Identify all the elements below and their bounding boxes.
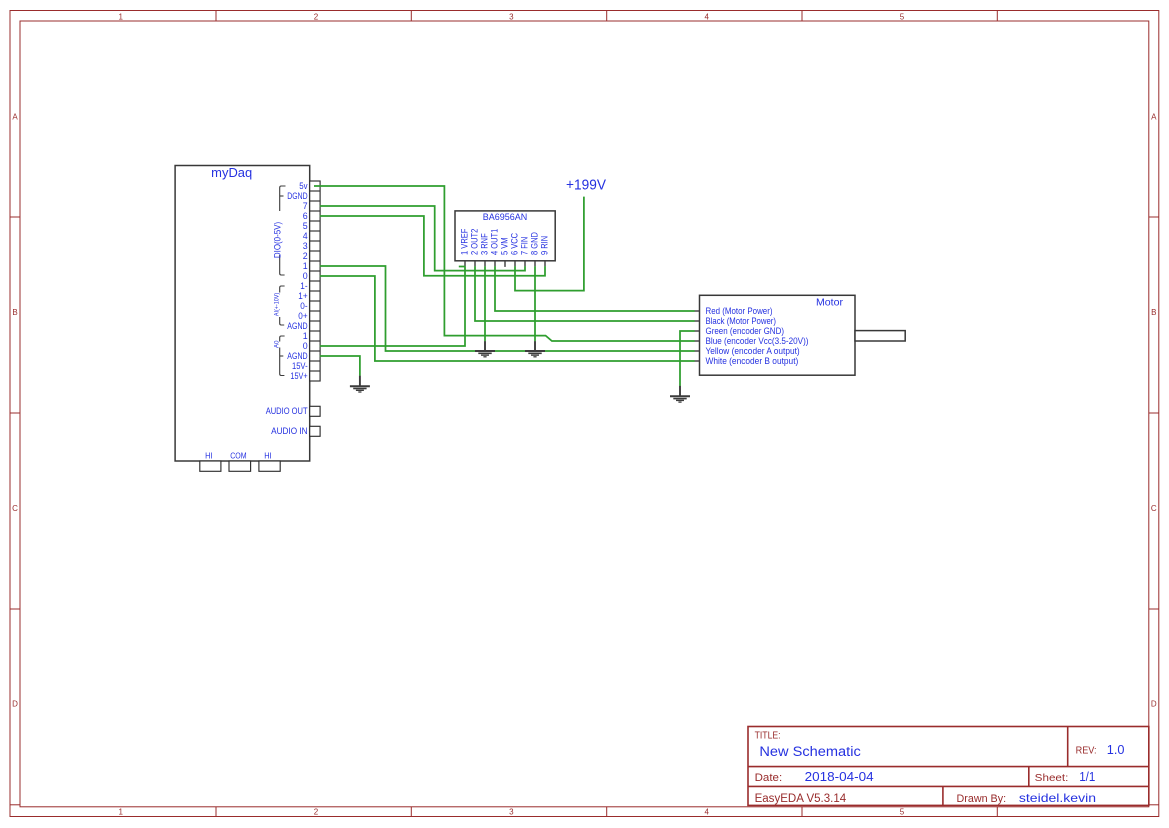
svg-text:6: 6 <box>303 211 308 221</box>
wire AGND to ground <box>320 356 360 376</box>
svg-text:1-: 1- <box>300 281 307 291</box>
wire AO0 to VREF <box>320 266 465 346</box>
wire DIO6 to RIN <box>320 216 545 276</box>
svg-text:7: 7 <box>303 201 308 211</box>
svg-text:AGND: AGND <box>287 321 307 331</box>
svg-text:2: 2 <box>303 251 308 261</box>
svg-text:Drawn By:: Drawn By: <box>957 793 1007 805</box>
svg-text:4 OUT1: 4 OUT1 <box>490 229 500 255</box>
svg-text:Blue (encoder Vcc(3.5-20V)): Blue (encoder Vcc(3.5-20V)) <box>706 336 809 346</box>
svg-text:9 RIN: 9 RIN <box>540 236 550 255</box>
svg-text:DGND: DGND <box>287 191 307 201</box>
wire DIO0 to encoder B (White) <box>320 276 695 361</box>
svg-text:5: 5 <box>900 807 905 816</box>
svg-text:5: 5 <box>900 12 905 21</box>
svg-text:D: D <box>1151 700 1157 709</box>
svg-text:5v: 5v <box>299 181 308 191</box>
svg-text:AI(+-10V): AI(+-10V) <box>273 293 280 316</box>
svg-text:New Schematic: New Schematic <box>759 744 861 759</box>
svg-text:2 OUT2: 2 OUT2 <box>470 229 480 255</box>
svg-text:1: 1 <box>303 331 308 341</box>
svg-text:1+: 1+ <box>298 291 307 301</box>
ground G2 (RNF) <box>475 341 495 357</box>
svg-text:0+: 0+ <box>298 311 307 321</box>
svg-text:EasyEDA V5.3.14: EasyEDA V5.3.14 <box>755 793 847 805</box>
svg-text:Date:: Date: <box>755 772 783 784</box>
svg-text:3 RNF: 3 RNF <box>480 233 490 255</box>
svg-text:REV:: REV: <box>1076 746 1097 757</box>
svg-text:+199V: +199V <box>566 177 606 194</box>
svg-text:C: C <box>1151 504 1157 513</box>
svg-text:0-: 0- <box>300 301 307 311</box>
component M1 Motor <box>695 295 906 375</box>
ground G3 (IC GND) <box>525 341 545 357</box>
svg-text:Black (Motor Power): Black (Motor Power) <box>706 316 777 326</box>
svg-text:C: C <box>12 504 18 513</box>
svg-text:3: 3 <box>509 807 514 816</box>
svg-text:1/1: 1/1 <box>1079 770 1095 784</box>
pin AUDIO IN <box>310 426 320 436</box>
svg-text:White (encoder B output): White (encoder B output) <box>706 356 799 366</box>
ground G1 (myDaq AGND) <box>350 376 370 392</box>
svg-text:1: 1 <box>118 12 123 21</box>
wire OUT1 to motor Red <box>495 266 695 311</box>
pin HI <box>200 461 221 471</box>
wire DIO7 to FIN <box>320 206 525 271</box>
svg-text:AUDIO OUT: AUDIO OUT <box>266 406 308 416</box>
wire 5v to encoder Vcc (Blue) <box>314 186 695 341</box>
pin HI2 <box>259 461 280 471</box>
svg-text:Sheet:: Sheet: <box>1035 772 1069 784</box>
svg-text:0: 0 <box>303 271 308 281</box>
svg-text:1: 1 <box>303 261 308 271</box>
wire OUT2 to motor Black <box>475 266 695 321</box>
svg-text:HI: HI <box>205 450 212 460</box>
svg-text:4: 4 <box>303 231 308 241</box>
wire stub at VREF <box>459 266 465 268</box>
svg-text:2: 2 <box>314 12 319 21</box>
svg-text:B: B <box>1151 308 1156 317</box>
pin labels rotated <box>460 228 550 255</box>
svg-text:1: 1 <box>118 807 123 816</box>
svg-text:8 GND: 8 GND <box>530 232 540 255</box>
svg-text:3: 3 <box>509 12 514 21</box>
svg-text:6 VCC: 6 VCC <box>510 232 520 255</box>
svg-text:steidel.kevin: steidel.kevin <box>1019 791 1096 805</box>
pin COM <box>229 461 251 471</box>
svg-text:2: 2 <box>314 807 319 816</box>
svg-text:15V-: 15V- <box>292 361 308 371</box>
svg-text:myDaq: myDaq <box>211 166 252 180</box>
svg-text:1 VREF: 1 VREF <box>460 228 470 255</box>
svg-text:0: 0 <box>303 341 308 351</box>
svg-text:B: B <box>12 308 17 317</box>
svg-text:Green (encoder GND): Green (encoder GND) <box>706 326 785 336</box>
svg-text:5: 5 <box>303 221 308 231</box>
motor pin stubs <box>695 311 700 361</box>
svg-text:AGND: AGND <box>287 351 307 361</box>
svg-text:TITLE:: TITLE: <box>755 730 781 741</box>
svg-text:DIO(0-5V): DIO(0-5V) <box>273 222 283 258</box>
svg-text:BA6956AN: BA6956AN <box>483 212 528 223</box>
pin AUDIO OUT <box>310 406 320 416</box>
svg-text:AUDIO IN: AUDIO IN <box>271 426 308 436</box>
svg-text:1.0: 1.0 <box>1107 743 1125 757</box>
wire RNF to ground <box>484 266 486 341</box>
pin stubs 1-9 <box>465 261 545 267</box>
component U1 myDaq <box>175 166 320 472</box>
svg-text:Motor: Motor <box>816 297 844 309</box>
svg-text:4: 4 <box>704 807 709 816</box>
svg-text:4: 4 <box>704 12 709 21</box>
wire motor encoder GND to ground <box>680 331 695 386</box>
svg-text:7 FIN: 7 FIN <box>520 237 530 255</box>
ground G4 (motor encoder GND) <box>670 386 690 402</box>
wire IC GND to ground <box>534 266 536 341</box>
pin ladder squares <box>200 181 320 471</box>
svg-text:15V+: 15V+ <box>290 371 307 381</box>
svg-text:A: A <box>1151 112 1157 121</box>
pin group brackets <box>280 186 286 376</box>
svg-text:5 VM: 5 VM <box>500 238 510 256</box>
component U2 BA6956AN <box>455 211 555 267</box>
wire DIO1 to encoder A (Yellow) <box>320 266 695 351</box>
svg-text:HI: HI <box>264 450 271 460</box>
svg-text:3: 3 <box>303 241 308 251</box>
svg-text:Yellow (encoder A output): Yellow (encoder A output) <box>706 346 800 356</box>
svg-text:A: A <box>12 112 18 121</box>
power +199V <box>566 177 606 194</box>
motor shaft <box>855 331 905 341</box>
svg-text:A0: A0 <box>273 340 280 348</box>
svg-text:2018-04-04: 2018-04-04 <box>805 769 874 784</box>
svg-text:D: D <box>12 700 18 709</box>
pin labels <box>266 181 308 436</box>
svg-text:COM: COM <box>230 450 246 460</box>
wire VCC to +199V <box>515 197 584 291</box>
svg-text:Red (Motor Power): Red (Motor Power) <box>706 306 773 316</box>
